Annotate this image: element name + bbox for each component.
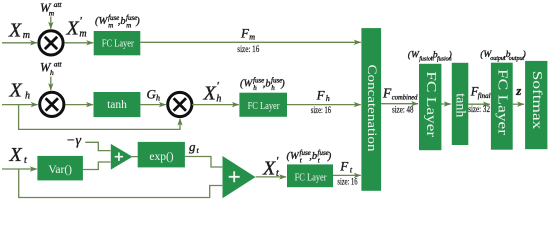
svg-text:m: m — [23, 30, 30, 41]
FC Layer box U6 — [287, 164, 333, 187]
wire -gamma into adder A1 — [85, 142, 110, 150]
svg-text:(W: (W — [287, 151, 300, 162]
label F_final — [470, 84, 491, 100]
wire input to multiplier M1 — [2, 42, 37, 44]
wire input to Var() — [2, 168, 37, 170]
svg-text:F: F — [316, 88, 326, 103]
FC Layer box U3 — [239, 93, 287, 117]
node W_m^att label — [40, 0, 62, 17]
node W_h^att label — [40, 60, 63, 77]
svg-text:,b: ,b — [118, 16, 126, 27]
wire exp() output into adder A2 — [185, 157, 222, 168]
exp() box U5 — [138, 142, 185, 168]
svg-text:FC Layer: FC Layer — [494, 69, 509, 135]
FC Layer box U8 (vertical) — [419, 64, 441, 150]
label size: 16 row1 — [237, 44, 259, 54]
svg-text:att: att — [54, 0, 63, 9]
wire W_h^att into M2 — [50, 77, 52, 91]
svg-text:final: final — [478, 92, 491, 100]
svg-text:h: h — [326, 94, 330, 103]
label (W_output, b_output) — [480, 49, 526, 62]
svg-text:X: X — [203, 83, 217, 105]
svg-text:Concatenation: Concatenation — [365, 65, 380, 153]
svg-text:): ) — [327, 151, 332, 162]
svg-text:att: att — [54, 60, 63, 69]
svg-text:size: 32: size: 32 — [468, 104, 490, 114]
label z — [515, 83, 522, 98]
svg-text:h: h — [50, 68, 54, 77]
node X'_t label — [262, 153, 279, 179]
svg-text:): ) — [522, 49, 526, 60]
svg-text:h: h — [156, 94, 160, 103]
label (W_t^fuse, b_t^fuse) — [287, 149, 332, 165]
svg-text:Softmax: Softmax — [529, 71, 544, 130]
wire A1 to exp() — [132, 156, 138, 158]
svg-text:): ) — [280, 79, 285, 90]
svg-text:FC Layer: FC Layer — [248, 101, 281, 112]
svg-text:X: X — [66, 18, 80, 40]
wire A2 to FC layer 3 — [256, 176, 287, 178]
svg-text:t: t — [276, 168, 279, 179]
wire Concatenation to FC layer 4, net F_combined — [381, 103, 418, 105]
svg-text:t: t — [24, 155, 27, 166]
label (W_h^fuse, b_h^fuse) — [240, 77, 285, 93]
wire input to multiplier M2 — [2, 104, 38, 106]
wire FC4 to tanh2 — [441, 103, 450, 105]
svg-text:h: h — [216, 93, 221, 104]
node X'_m label — [66, 14, 87, 40]
label F_combined — [382, 86, 418, 102]
wire M2 to tanh box — [65, 104, 93, 106]
Concatenation box U7 — [361, 28, 381, 191]
svg-text:′: ′ — [79, 14, 82, 28]
svg-text:size: 48: size: 48 — [392, 104, 414, 114]
label (W_fusion, b_fusion) — [408, 50, 452, 63]
wire Var() output into adder A1 — [83, 162, 111, 170]
svg-text:m: m — [126, 21, 131, 29]
svg-text:g: g — [189, 139, 196, 154]
label size: 16 row3 — [337, 176, 358, 186]
svg-text:FC Layer: FC Layer — [295, 173, 328, 184]
svg-text:h: h — [271, 84, 275, 92]
svg-text:X: X — [262, 157, 276, 179]
adder A1 (plus triangle) — [111, 144, 133, 170]
svg-text:−γ: −γ — [66, 133, 81, 148]
Softmax box U11 (vertical) — [525, 61, 547, 149]
svg-text:FC Layer: FC Layer — [423, 71, 438, 137]
multiplier M1 (circle with X) — [39, 31, 63, 55]
multiplier M2 (circle with X) — [40, 92, 64, 116]
node X'_h label — [203, 79, 222, 105]
FC Layer box U10 (vertical) — [491, 63, 513, 150]
svg-text:size: 16: size: 16 — [337, 176, 358, 186]
label size: 32 — [468, 104, 490, 114]
svg-text:z: z — [515, 83, 522, 98]
node X_t label — [9, 144, 28, 166]
FC Layer box U1 — [94, 31, 141, 55]
svg-text:h: h — [25, 90, 30, 101]
label F_h — [316, 88, 330, 104]
label g_t — [189, 139, 200, 155]
svg-text:(W: (W — [95, 16, 108, 27]
adder A2 (plus triangle) — [223, 156, 256, 198]
svg-text:size: 16: size: 16 — [311, 105, 332, 115]
svg-text:Var(): Var() — [48, 164, 72, 176]
node X_m label — [8, 20, 30, 42]
label (W_m^fuse, b_m^fuse) — [95, 14, 140, 30]
svg-text:m: m — [108, 21, 113, 29]
tanh box U2 — [94, 92, 141, 117]
label size: 48 — [392, 104, 414, 114]
label -gamma — [66, 133, 81, 148]
wire tanh to M3, net G_h — [140, 104, 165, 106]
svg-text:F: F — [339, 159, 349, 174]
svg-text:X: X — [9, 144, 23, 166]
svg-text:tanh: tanh — [453, 93, 468, 117]
wire M1 to FC layer 1 — [65, 42, 94, 44]
wire FC3 to Concatenation, net F_t — [333, 174, 361, 176]
wire feedback branch into adder A2 — [19, 169, 223, 198]
label F_m — [240, 26, 255, 42]
svg-text:,b: ,b — [309, 151, 317, 162]
svg-text:): ) — [448, 50, 452, 61]
svg-text:): ) — [135, 16, 140, 27]
svg-text:X: X — [8, 20, 22, 42]
svg-text:m: m — [249, 33, 255, 42]
label F_t — [339, 159, 353, 175]
multiplier M3 (circle with X) — [168, 92, 192, 116]
svg-text:′: ′ — [276, 153, 279, 167]
svg-text:G: G — [147, 86, 157, 101]
svg-text:m: m — [79, 29, 86, 40]
svg-text:′: ′ — [216, 79, 219, 93]
wire feedback branch into multiplier M3 — [19, 105, 180, 130]
svg-text:F: F — [382, 86, 392, 101]
wire tanh2 to FC layer 5, net F_final — [468, 103, 490, 105]
svg-text:combined: combined — [392, 94, 418, 102]
node X_h label — [9, 79, 31, 101]
svg-text:,b: ,b — [263, 79, 271, 90]
svg-text:tanh: tanh — [107, 99, 127, 111]
svg-text:h: h — [253, 84, 257, 92]
svg-text:(W: (W — [408, 50, 420, 61]
label size: 16 row2 — [311, 105, 332, 115]
tanh box U9 (vertical) — [452, 63, 469, 145]
wire M3 to FC layer 2 — [192, 104, 239, 106]
label G_h — [147, 86, 161, 102]
svg-text:X: X — [9, 79, 23, 101]
svg-text:m: m — [49, 8, 55, 17]
svg-text:size: 16: size: 16 — [237, 44, 259, 54]
wire FC2 to Concatenation, net F_h — [287, 104, 361, 106]
svg-text:exp(): exp() — [149, 151, 173, 163]
svg-text:(W: (W — [240, 79, 253, 90]
wire W_m^att into M1 — [50, 17, 52, 29]
svg-text:FC Layer: FC Layer — [102, 39, 135, 50]
Var() box U4 — [37, 156, 83, 181]
wire FC5 to Softmax, net z — [513, 103, 524, 105]
wire FC1 to Concatenation, net F_m — [140, 41, 360, 43]
